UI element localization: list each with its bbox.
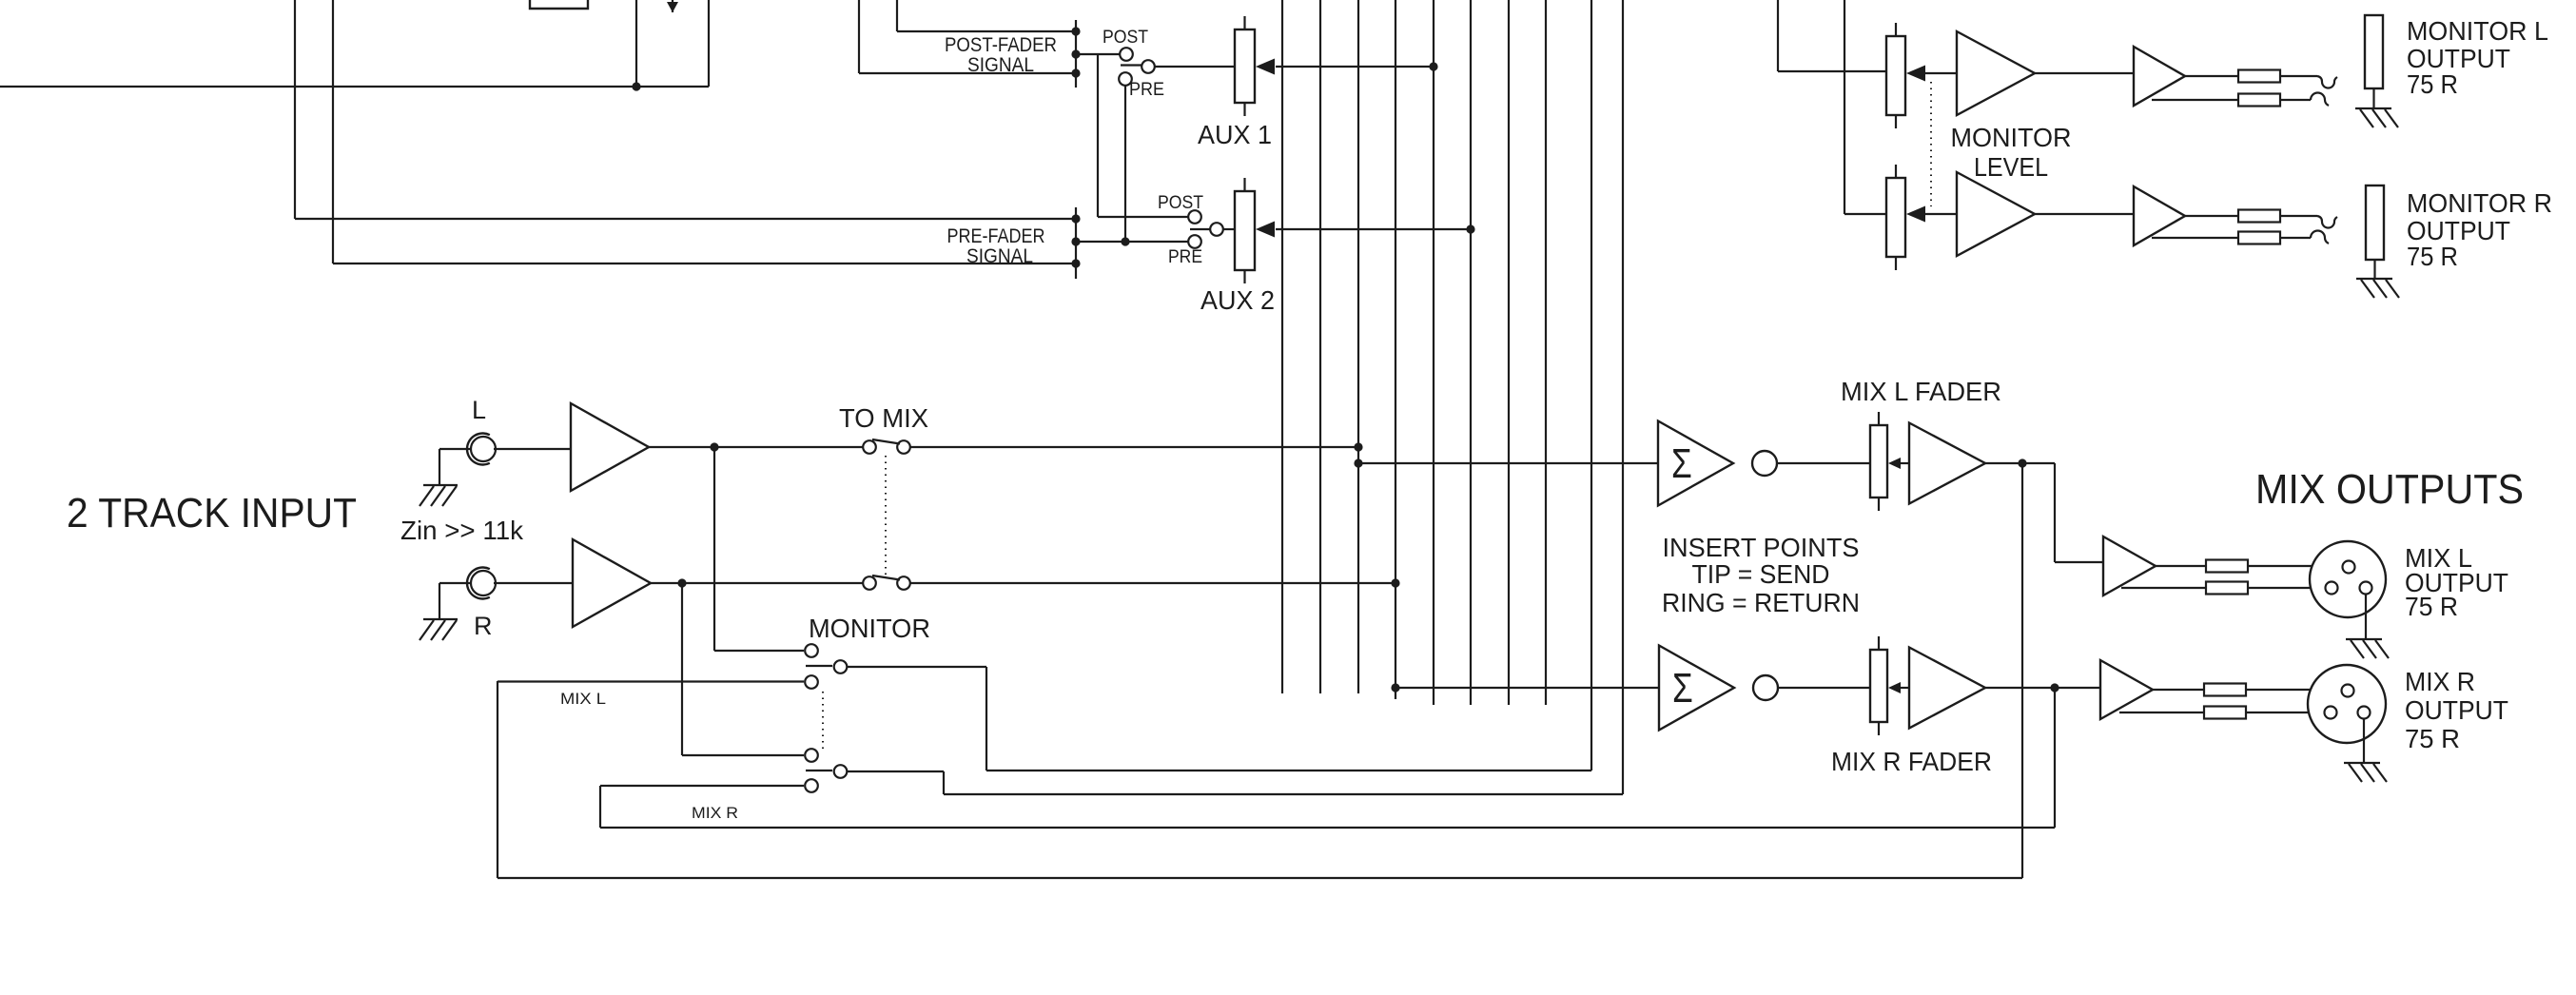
node junction [2018, 458, 2026, 467]
node junction [1391, 578, 1399, 587]
op-amp 2-track R buffer [573, 539, 651, 627]
resistor 75R MIX L cold [2206, 582, 2248, 595]
wire [2152, 99, 2238, 101]
wire [1925, 213, 1957, 215]
wire [1098, 54, 1188, 217]
connector XLR MIX L [2310, 541, 2386, 617]
node junction [1429, 62, 1437, 70]
wire [608, 785, 804, 787]
connector XLR MIX R [2308, 665, 2386, 743]
svg-text:2 TRACK INPUT: 2 TRACK INPUT [67, 490, 357, 537]
label POST-FADER SIGNAL [945, 34, 1057, 76]
switch link [1930, 82, 1932, 206]
wire [600, 786, 608, 828]
wire [2035, 72, 2134, 74]
node pre-fader rail [1075, 207, 1077, 279]
wire [2156, 565, 2207, 567]
op-amp MIX L [1909, 423, 1985, 504]
label POST [1103, 28, 1148, 48]
svg-text:MIX R: MIX R [692, 804, 738, 822]
wire [1124, 86, 1126, 242]
bus line 9 (monitor L bus) [986, 0, 1591, 771]
wire [333, 0, 1076, 263]
wire [1844, 0, 1886, 214]
bus line 6 (aux 2 bus) [1470, 0, 1472, 705]
wire [714, 447, 804, 651]
ground [420, 619, 458, 640]
resistor 75R monitor L cold [2238, 94, 2280, 107]
wire [2248, 587, 2325, 589]
svg-text:PRE: PRE [1129, 80, 1164, 100]
wire [1395, 687, 1659, 689]
connector jack MONITOR L [2365, 15, 2383, 108]
label POST [1158, 193, 1203, 213]
wire [1076, 53, 1120, 55]
label PRE [1168, 247, 1202, 267]
switch AUX1 arm [1121, 64, 1142, 66]
label MIX L [560, 690, 606, 708]
wiper arrow monitor L [1906, 66, 1925, 82]
svg-text:R: R [474, 612, 493, 640]
node junction [1121, 237, 1129, 245]
resistor 75R MIX R cold [2204, 707, 2246, 719]
connector RCA R [467, 568, 496, 599]
wire [1276, 66, 1434, 68]
wire mix L return [498, 680, 804, 682]
wire [0, 86, 709, 88]
ground [420, 485, 458, 506]
wire [2035, 213, 2134, 215]
node junction [1071, 237, 1080, 245]
wire [439, 582, 471, 584]
insert point send/return MIX L [1752, 451, 1777, 476]
resistor 75R monitor R cold [2238, 232, 2280, 244]
wire jack ring contact [2280, 93, 2329, 106]
wire [2153, 689, 2204, 691]
switch MONITOR R top contact [805, 749, 818, 762]
switch AUX1 post contact [1120, 48, 1133, 61]
potentiometer MONITOR LEVEL R [1886, 165, 1905, 270]
wire [651, 582, 863, 584]
op-amp MIX R [1909, 648, 1985, 729]
wire [494, 448, 571, 450]
wire [708, 0, 710, 87]
wire jack tip contact [2280, 216, 2337, 228]
svg-text:75 R: 75 R [2407, 242, 2458, 271]
summing amp MIX L [1658, 421, 1733, 506]
svg-text:OUTPUT: OUTPUT [2405, 695, 2508, 725]
label Zin >> 11k [400, 516, 524, 545]
wire jack ring contact [2280, 231, 2329, 244]
node junction [677, 578, 686, 587]
wire [2365, 595, 2367, 639]
node junction [1391, 683, 1399, 692]
wire [439, 583, 440, 619]
label MONITOR L OUTPUT 75 R [2407, 16, 2548, 99]
node post-fader rail [1075, 20, 1077, 88]
wire [635, 0, 637, 87]
svg-text:MIX R: MIX R [2405, 667, 2475, 696]
switch AUX1 pre contact [1119, 72, 1132, 86]
svg-text:AUX 1: AUX 1 [1198, 120, 1272, 149]
ground [2355, 108, 2398, 127]
resistor 75R monitor L hot [2238, 70, 2280, 83]
wire [1223, 228, 1235, 230]
label MIX R OUTPUT 75 R [2405, 667, 2508, 753]
op-amp 2-track L buffer [571, 403, 649, 491]
wire [1925, 72, 1957, 74]
op-amp monitor R [1957, 172, 2035, 256]
svg-text:LEVEL: LEVEL [1974, 152, 2048, 182]
label PRE [1129, 80, 1164, 100]
wire [1076, 241, 1188, 243]
switch TO MIX L [863, 439, 910, 454]
wiper arrow MIX L fader [1888, 458, 1909, 469]
switch MONITOR L bottom contact [805, 675, 818, 689]
node junction [1354, 458, 1362, 467]
connector RCA L [467, 434, 496, 465]
node junction [1071, 68, 1080, 77]
wiper arrow MIX R fader [1888, 682, 1909, 693]
svg-text:MONITOR R: MONITOR R [2407, 188, 2552, 218]
wire [1985, 687, 2100, 689]
wire mix R feedback [600, 688, 2055, 828]
op-amp monitor R output [2134, 186, 2185, 245]
switch MONITOR L arm [806, 665, 832, 667]
node junction [1354, 442, 1362, 451]
wire [859, 0, 1076, 73]
wire [439, 449, 440, 485]
svg-text:AUX 2: AUX 2 [1200, 285, 1275, 315]
wiper arrow monitor R [1906, 206, 1925, 223]
svg-text:L: L [472, 396, 486, 424]
svg-text:75 R: 75 R [2405, 724, 2460, 753]
label 2 TRACK INPUT [67, 490, 357, 537]
node junction [2050, 683, 2059, 692]
pan pot wiper arrow fragment [667, 0, 678, 12]
wire [439, 448, 471, 450]
label MIX R [692, 804, 738, 822]
op-amp monitor L output [2134, 47, 2185, 106]
wire monitor R feed [848, 771, 944, 794]
node junction [1071, 27, 1080, 35]
fader MIX L [1870, 412, 1887, 511]
label MONITOR [809, 614, 930, 643]
wire [2246, 712, 2325, 713]
svg-text:POST-FADER: POST-FADER [945, 34, 1057, 56]
svg-text:PRE-FADER: PRE-FADER [947, 225, 1045, 247]
svg-text:MIX OUTPUTS: MIX OUTPUTS [2255, 466, 2524, 513]
wire [910, 582, 1395, 584]
wire [1778, 687, 1870, 689]
bus line 1 [1281, 0, 1283, 693]
switch TO MIX R [863, 576, 910, 590]
wiper arrow AUX2 [1256, 222, 1275, 238]
svg-text:MIX L: MIX L [560, 690, 606, 708]
node junction [1466, 224, 1474, 233]
wiper arrow AUX1 [1256, 59, 1275, 75]
svg-text:Zin >> 11k: Zin >> 11k [400, 516, 524, 545]
label MIX OUTPUTS [2255, 466, 2524, 513]
label PRE-FADER SIGNAL [947, 225, 1045, 267]
svg-text:Σ: Σ [1671, 440, 1692, 487]
wire jack tip contact [2280, 76, 2337, 88]
svg-text:MIX R FADER: MIX R FADER [1831, 747, 1992, 776]
wire [2246, 689, 2342, 691]
potentiometer AUX 1 [1235, 16, 1255, 116]
switch AUX2 common [1210, 223, 1223, 236]
summing amp MIX R [1659, 646, 1734, 731]
connector jack MONITOR R [2366, 185, 2384, 279]
wire [2363, 718, 2365, 763]
wire [1358, 462, 1658, 464]
node junction [1071, 259, 1080, 267]
switch MONITOR R arm [806, 770, 832, 771]
bus line 3 (mix L bus) [1357, 0, 1359, 693]
node junction [1071, 214, 1080, 223]
wire [2185, 215, 2238, 217]
svg-text:SIGNAL: SIGNAL [966, 245, 1033, 267]
wire mix L feedback [498, 463, 2022, 878]
label MIX R FADER [1831, 747, 1992, 776]
label MIX L OUTPUT 75 R [2405, 543, 2508, 621]
svg-text:MONITOR L: MONITOR L [2407, 16, 2548, 46]
node junction [1071, 49, 1080, 58]
wire [295, 0, 1076, 219]
op-amp MIX L output [2103, 537, 2156, 595]
resistor 75R monitor R hot [2238, 210, 2280, 223]
switch AUX2 post contact [1188, 210, 1201, 224]
wire [2055, 463, 2103, 562]
switch MONITOR R bottom contact [805, 779, 818, 792]
svg-text:MONITOR: MONITOR [809, 614, 930, 643]
bus line 7 [1508, 0, 1510, 705]
wire [2185, 75, 2238, 77]
ground [2346, 639, 2389, 658]
wire monitor L feed [848, 667, 986, 771]
label TO MIX [839, 403, 928, 433]
bus line 8 [1545, 0, 1547, 705]
wire [897, 0, 1076, 31]
wire [2121, 587, 2206, 589]
bus line 5 (aux 1 bus) [1433, 0, 1434, 705]
svg-text:MIX L FADER: MIX L FADER [1841, 377, 2001, 406]
fader box fragment [530, 0, 588, 9]
svg-text:75 R: 75 R [2407, 69, 2458, 99]
label L [472, 396, 486, 424]
label AUX 1 [1198, 120, 1272, 149]
wire [649, 446, 863, 448]
potentiometer AUX 2 [1235, 178, 1255, 283]
bus line 2 [1319, 0, 1321, 693]
switch link [822, 692, 824, 749]
wire [910, 446, 1358, 448]
node junction [710, 442, 718, 451]
switch MONITOR L common [834, 660, 848, 673]
wire [494, 582, 573, 584]
label MONITOR LEVEL [1951, 123, 2072, 182]
wire [2119, 712, 2204, 713]
svg-text:TO MIX: TO MIX [839, 403, 928, 433]
bus line 10 (monitor R bus) [944, 0, 1623, 794]
resistor 75R MIX R hot [2204, 684, 2246, 696]
insert point send/return MIX R [1753, 675, 1778, 700]
wire [1778, 0, 1886, 71]
wire [1777, 462, 1870, 464]
wire [1155, 66, 1235, 68]
wire [682, 583, 804, 755]
label R [474, 612, 493, 640]
wire [1276, 228, 1471, 230]
switch AUX1 common [1142, 60, 1155, 73]
svg-text:SIGNAL: SIGNAL [967, 54, 1034, 76]
svg-text:PRE: PRE [1168, 247, 1202, 267]
svg-text:MONITOR: MONITOR [1951, 123, 2072, 152]
switch MONITOR L top contact [805, 644, 818, 657]
fader MIX R [1870, 636, 1887, 735]
svg-text:Σ: Σ [1672, 665, 1693, 712]
switch AUX2 pre contact [1188, 235, 1201, 248]
switch link [885, 456, 887, 575]
ground [2356, 279, 2399, 298]
bus line 4 (mix R bus) [1395, 0, 1396, 699]
node junction [632, 82, 640, 90]
wire [1985, 462, 2055, 464]
label AUX 2 [1200, 285, 1275, 315]
label MIX L FADER [1841, 377, 2001, 406]
svg-text:RING = RETURN: RING = RETURN [1662, 588, 1860, 617]
svg-text:POST: POST [1103, 28, 1148, 48]
wire [2152, 237, 2238, 239]
wire [2248, 565, 2342, 567]
switch MONITOR R common [834, 765, 848, 778]
op-amp monitor L [1957, 31, 2035, 115]
svg-text:75 R: 75 R [2405, 592, 2458, 621]
potentiometer MONITOR LEVEL L [1886, 23, 1905, 128]
label MONITOR R OUTPUT 75 R [2407, 188, 2552, 271]
svg-text:INSERT POINTS: INSERT POINTS [1663, 533, 1860, 562]
op-amp MIX R output [2100, 660, 2153, 719]
ground [2344, 763, 2387, 782]
switch AUX2 arm [1190, 228, 1210, 230]
svg-text:TIP = SEND: TIP = SEND [1692, 559, 1830, 589]
label INSERT POINTS [1662, 533, 1860, 617]
resistor 75R MIX L hot [2206, 560, 2248, 573]
